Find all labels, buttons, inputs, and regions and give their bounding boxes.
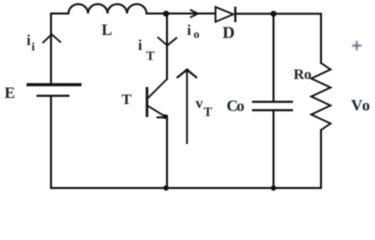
svg-text:T: T: [204, 104, 213, 119]
svg-text:E: E: [5, 85, 16, 102]
svg-text:o: o: [362, 98, 370, 115]
svg-text:i: i: [138, 38, 142, 54]
svg-text:L: L: [102, 22, 113, 39]
svg-text:o: o: [304, 67, 312, 83]
svg-text:T: T: [122, 92, 132, 108]
svg-text:i: i: [187, 23, 191, 39]
svg-text:i: i: [27, 33, 31, 49]
svg-text:D: D: [223, 23, 235, 42]
svg-text:v: v: [196, 96, 204, 112]
svg-text:o: o: [194, 27, 200, 41]
svg-text:o: o: [237, 98, 245, 115]
svg-text:T: T: [146, 48, 155, 63]
svg-text:R: R: [294, 67, 305, 83]
